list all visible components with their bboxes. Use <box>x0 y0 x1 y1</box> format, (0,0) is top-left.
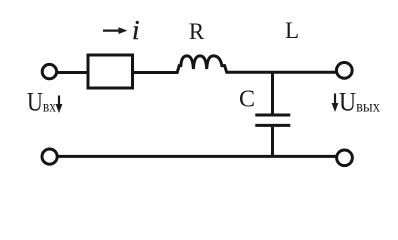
svg-text:C: C <box>239 86 255 112</box>
svg-text:L: L <box>285 18 299 43</box>
svg-text:i: i <box>132 15 140 45</box>
svg-text:R: R <box>189 19 205 44</box>
